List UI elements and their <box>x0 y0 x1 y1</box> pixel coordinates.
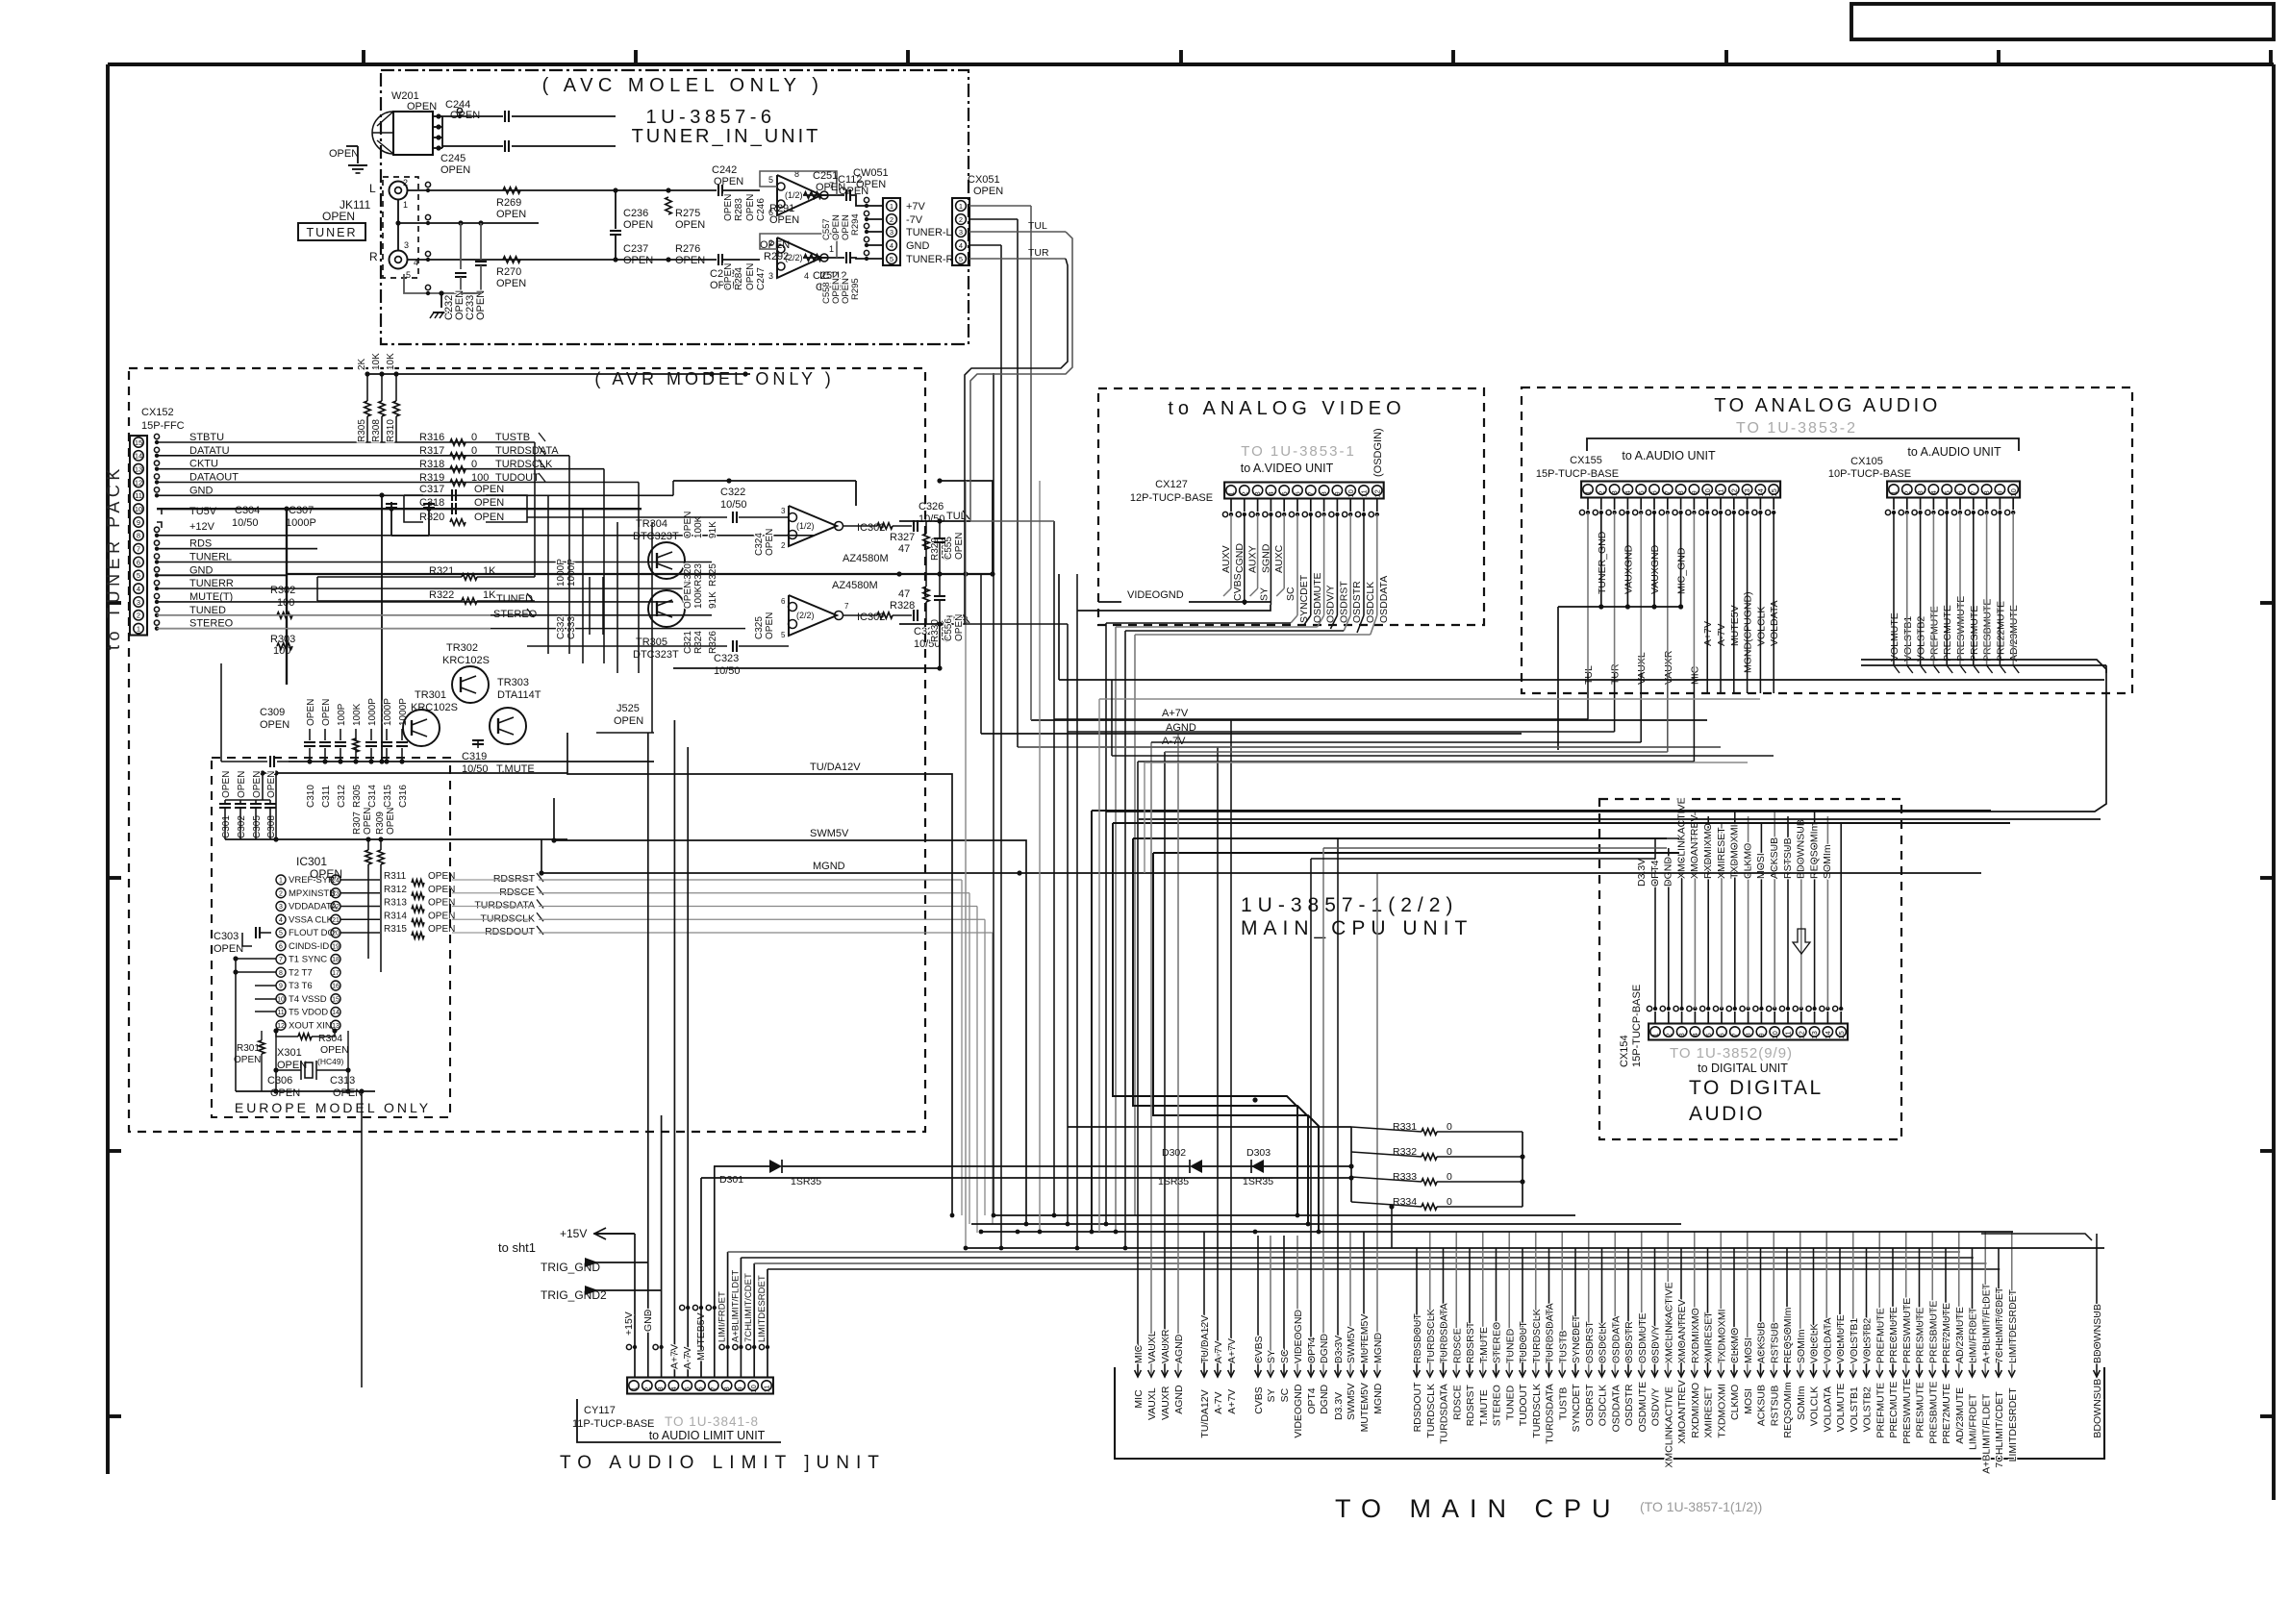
svg-text:J525: J525 <box>617 703 640 714</box>
svg-text:BDOWNSUB: BDOWNSUB <box>1796 819 1807 879</box>
svg-text:10: 10 <box>277 996 285 1003</box>
wires IC301 left <box>236 958 276 960</box>
svg-text:OSDRST: OSDRST <box>1584 1321 1596 1363</box>
capacitor C232 <box>460 223 462 269</box>
svg-text:OPEN: OPEN <box>745 263 756 290</box>
svg-text:MUTEM5V: MUTEM5V <box>1359 1314 1371 1363</box>
svg-text:XMIRESET: XMIRESET <box>1703 1312 1715 1363</box>
svg-text:VOLDATA: VOLDATA <box>1769 601 1780 646</box>
IC301 pin rows <box>276 875 286 885</box>
svg-text:CGND: CGND <box>1234 543 1246 573</box>
svg-text:PRE22MUTE: PRE22MUTE <box>1995 601 2006 662</box>
capacitor C245 <box>442 145 503 147</box>
svg-text:11: 11 <box>1360 490 1369 498</box>
svg-text:TU/DA12V: TU/DA12V <box>1199 1315 1211 1363</box>
svg-text:1: 1 <box>1651 1033 1660 1037</box>
svg-text:7: 7 <box>1969 490 1977 494</box>
svg-text:XMOANTREV: XMOANTREV <box>1689 814 1700 879</box>
svg-text:TURDSCLK: TURDSCLK <box>1425 1384 1437 1438</box>
svg-text:XMCLINKACTIVE: XMCLINKACTIVE <box>1663 1387 1674 1468</box>
svg-text:6: 6 <box>1718 1033 1726 1037</box>
OSD bus lines exiting video box <box>1106 622 1291 624</box>
svg-text:TUR: TUR <box>1610 663 1622 685</box>
svg-text:OSDDATA: OSDDATA <box>1610 1316 1622 1363</box>
svg-text:C332: C332 <box>556 616 566 639</box>
svg-text:(2/2): (2/2) <box>796 611 815 620</box>
svg-text:47: 47 <box>898 588 910 600</box>
svg-text:7CHLIMIT/CDET: 7CHLIMIT/CDET <box>743 1273 754 1342</box>
svg-text:C247: C247 <box>756 267 767 290</box>
svg-text:C316: C316 <box>398 785 409 808</box>
svg-text:SGND: SGND <box>1260 543 1271 573</box>
svg-text:2: 2 <box>1902 490 1911 494</box>
svg-text:PREFMUTE: PREFMUTE <box>1875 1308 1886 1363</box>
svg-text:VAUXL: VAUXL <box>1146 1387 1158 1420</box>
svg-text:GND: GND <box>189 485 214 496</box>
svg-text:C237: C237 <box>623 243 648 255</box>
fiducial ticks top <box>362 50 365 64</box>
svg-text:VOLSTB2: VOLSTB2 <box>1916 616 1927 662</box>
svg-text:R284: R284 <box>734 267 744 290</box>
svg-text:CVBS: CVBS <box>1232 573 1244 601</box>
svg-text:BDOWNSUB: BDOWNSUB <box>2092 1304 2103 1363</box>
svg-text:MIC: MIC <box>1133 1344 1145 1363</box>
svg-text:100K: 100K <box>693 586 704 609</box>
bottom signal columns group C <box>1257 1236 1259 1377</box>
svg-text:15P-TUCP-BASE: 15P-TUCP-BASE <box>1536 468 1619 480</box>
CX105 stubs <box>1893 498 1895 511</box>
border frame right <box>2272 64 2276 1500</box>
resistor R292 <box>804 255 821 261</box>
svg-text:XMOANTREV: XMOANTREV <box>1676 1380 1688 1444</box>
svg-text:R326: R326 <box>708 631 718 654</box>
svg-text:4: 4 <box>1929 490 1938 494</box>
svg-text:12P-TUCP-BASE: 12P-TUCP-BASE <box>1130 492 1213 504</box>
capacitor C236 <box>613 187 617 192</box>
wire jack link <box>397 199 399 223</box>
svg-text:VIDEOGND: VIDEOGND <box>1293 1384 1304 1437</box>
svg-text:OSDMUTE: OSDMUTE <box>1637 1382 1648 1433</box>
connector CX155 <box>1581 482 1780 498</box>
to ANALOG VIDEO dashed box <box>1098 388 1484 625</box>
svg-text:TO 1U-3852(9/9): TO 1U-3852(9/9) <box>1670 1045 1793 1062</box>
svg-text:SYNCDET: SYNCDET <box>1571 1314 1582 1363</box>
svg-text:9: 9 <box>1690 490 1699 494</box>
bottom signal column BDOWNSUB <box>2096 1234 2098 1377</box>
row 1225 wire <box>701 1177 1351 1179</box>
svg-text:ACKSUB: ACKSUB <box>1756 1322 1768 1363</box>
svg-text:SWM5V: SWM5V <box>1346 1326 1357 1363</box>
svg-text:6: 6 <box>781 597 786 606</box>
svg-text:MUTE(T): MUTE(T) <box>189 591 233 603</box>
digital D3.3V OPT4 DGND left runs <box>1311 858 1655 860</box>
svg-text:12: 12 <box>1372 489 1381 497</box>
svg-text:FLOUT DO: FLOUT DO <box>289 928 335 938</box>
svg-text:2: 2 <box>403 178 408 187</box>
svg-text:MOSI: MOSI <box>1743 1388 1754 1414</box>
svg-text:91K: 91K <box>708 591 718 609</box>
svg-text:OSDCLK: OSDCLK <box>1598 1322 1609 1363</box>
svg-text:9: 9 <box>279 984 283 990</box>
svg-text:R304: R304 <box>318 1033 342 1044</box>
svg-text:7: 7 <box>844 602 849 611</box>
svg-text:OPEN: OPEN <box>973 186 1003 197</box>
svg-text:RXDMIXMO: RXDMIXMO <box>1690 1383 1701 1438</box>
svg-text:PRESMUTE: PRESMUTE <box>1969 606 1980 662</box>
svg-text:D302: D302 <box>1162 1147 1186 1159</box>
svg-text:A-7V: A-7V <box>1213 1391 1224 1413</box>
svg-text:15P-TUCP-BASE: 15P-TUCP-BASE <box>1631 985 1643 1067</box>
svg-text:1: 1 <box>1227 491 1236 495</box>
svg-text:AUXV: AUXV <box>1220 545 1232 573</box>
svg-text:-7V: -7V <box>906 214 923 226</box>
svg-text:OSDRST: OSDRST <box>1584 1384 1596 1426</box>
resistor R270 <box>503 257 520 262</box>
svg-text:R322: R322 <box>429 589 454 601</box>
svg-text:C322: C322 <box>720 487 745 498</box>
svg-text:PRESMUTE: PRESMUTE <box>1915 1382 1926 1437</box>
AVC to bundle wires <box>969 205 1031 207</box>
AVR model only dashed box <box>129 368 925 1132</box>
svg-text:MIC_GND: MIC_GND <box>1676 547 1688 594</box>
svg-text:MAIN_CPU UNIT: MAIN_CPU UNIT <box>1241 917 1472 939</box>
svg-text:MUTE5V: MUTE5V <box>1729 605 1741 646</box>
EUROPE model only dashed box <box>212 758 450 1117</box>
svg-text:OPEN: OPEN <box>234 1055 261 1065</box>
europe bottom bus <box>236 1090 375 1092</box>
feedback wires opamp1 <box>760 171 837 195</box>
svg-text:MGND: MGND <box>813 861 845 872</box>
svg-text:4: 4 <box>279 917 283 924</box>
svg-text:OPEN: OPEN <box>363 808 373 835</box>
svg-text:TUNER: TUNER <box>306 226 357 239</box>
svg-text:1: 1 <box>890 202 893 211</box>
svg-text:X301: X301 <box>277 1047 302 1059</box>
junction dots bottom buses <box>992 1213 996 1218</box>
connector CX152 15P-FFC <box>130 436 147 635</box>
svg-text:R295: R295 <box>850 278 861 300</box>
svg-text:R301: R301 <box>237 1043 260 1054</box>
svg-text:R302: R302 <box>270 585 295 596</box>
svg-text:+7V: +7V <box>906 201 926 212</box>
svg-text:2K: 2K <box>357 358 367 370</box>
svg-text:R305: R305 <box>357 419 367 442</box>
svg-text:TUR: TUR <box>1028 247 1049 259</box>
svg-text:1: 1 <box>403 200 408 210</box>
svg-text:VAUXR: VAUXR <box>1160 1329 1171 1363</box>
svg-text:OPEN: OPEN <box>765 612 775 639</box>
long wires LIMI group to right <box>728 1251 1960 1253</box>
op-amp IC112 (1/2) <box>777 175 821 215</box>
svg-text:6: 6 <box>1294 491 1302 495</box>
svg-text:10: 10 <box>1346 489 1355 497</box>
svg-text:MGND: MGND <box>1372 1383 1384 1413</box>
svg-text:VOLDATA: VOLDATA <box>1822 1318 1833 1363</box>
svg-text:SY: SY <box>1259 587 1271 601</box>
svg-text:1U-3857-6: 1U-3857-6 <box>645 107 775 128</box>
svg-text:47: 47 <box>898 543 910 555</box>
capacitor C237 <box>613 257 617 262</box>
svg-text:1: 1 <box>279 878 283 885</box>
svg-text:LIMITDESRDET: LIMITDESRDET <box>757 1275 768 1342</box>
bottom signal columns group A <box>1137 762 1139 1377</box>
wire opamp1 out <box>803 194 828 196</box>
svg-text:OPEN: OPEN <box>954 533 965 560</box>
svg-text:OPEN: OPEN <box>496 278 526 289</box>
svg-text:C318: C318 <box>419 497 444 509</box>
svg-text:12: 12 <box>1729 488 1738 496</box>
svg-text:TURDSDATA: TURDSDATA <box>495 445 559 457</box>
svg-text:VAUXGND: VAUXGND <box>1649 544 1661 594</box>
svg-text:+15V: +15V <box>560 1227 587 1240</box>
capacitor C244 <box>442 115 503 117</box>
svg-text:3: 3 <box>656 1387 665 1390</box>
svg-text:5: 5 <box>1280 491 1289 495</box>
svg-text:VOLSTB1: VOLSTB1 <box>1849 1387 1860 1432</box>
svg-text:7CHLIMIT/CDET: 7CHLIMIT/CDET <box>1994 1391 2005 1468</box>
svg-text:STBTU: STBTU <box>189 432 224 443</box>
border frame left <box>106 64 110 1474</box>
svg-text:OSDSTR: OSDSTR <box>1351 581 1363 623</box>
svg-text:TO DIGITAL: TO DIGITAL <box>1689 1077 1824 1099</box>
svg-text:to A.AUDIO UNIT: to A.AUDIO UNIT <box>1907 445 2001 459</box>
svg-text:RDSCE: RDSCE <box>499 887 535 898</box>
svg-text:4: 4 <box>959 241 963 250</box>
wire A+7V bus <box>1031 719 1707 721</box>
jack dashed outline <box>383 177 418 278</box>
svg-text:22: 22 <box>332 904 340 911</box>
svg-text:20: 20 <box>332 931 340 937</box>
svg-text:6: 6 <box>696 1387 705 1390</box>
svg-text:RDSDOUT: RDSDOUT <box>1412 1382 1423 1433</box>
svg-text:TR302: TR302 <box>446 642 478 654</box>
svg-text:R275: R275 <box>675 208 700 219</box>
svg-text:R313: R313 <box>384 898 407 909</box>
svg-text:TURDSCLK: TURDSCLK <box>1425 1309 1437 1363</box>
svg-text:STEREO: STEREO <box>1492 1322 1503 1363</box>
svg-text:9: 9 <box>137 518 140 527</box>
svg-text:XOUT XIN: XOUT XIN <box>289 1020 332 1031</box>
svg-text:to A.VIDEO UNIT: to A.VIDEO UNIT <box>1241 462 1334 475</box>
svg-text:TUSTB: TUSTB <box>1557 1331 1569 1363</box>
svg-text:TO 1U-3853-2: TO 1U-3853-2 <box>1736 420 1857 437</box>
svg-text:7: 7 <box>709 1387 717 1390</box>
svg-text:TURDSCLK: TURDSCLK <box>495 459 553 470</box>
svg-text:TR303: TR303 <box>497 677 529 688</box>
svg-text:VIDEOGND: VIDEOGND <box>1127 589 1184 601</box>
svg-text:A-7V: A-7V <box>682 1347 693 1369</box>
svg-text:A+7V: A+7V <box>668 1344 680 1369</box>
svg-text:R319: R319 <box>419 472 444 484</box>
svg-text:TURDSDATA: TURDSDATA <box>1439 1384 1450 1444</box>
wire TU/DA12V <box>567 733 952 1215</box>
svg-text:TUSTB: TUSTB <box>1557 1387 1569 1420</box>
svg-text:OPEN: OPEN <box>260 719 289 731</box>
svg-text:C314: C314 <box>367 785 378 808</box>
svg-text:2: 2 <box>1240 491 1248 495</box>
svg-text:23: 23 <box>332 890 340 897</box>
connector CX127 <box>1224 483 1384 499</box>
svg-text:1000P: 1000P <box>367 698 378 726</box>
svg-text:TXDMOXMI: TXDMOXMI <box>1729 824 1741 879</box>
svg-text:to TUNER PACK: to TUNER PACK <box>104 464 123 650</box>
svg-text:1000P: 1000P <box>556 559 566 587</box>
svg-text:5: 5 <box>137 571 140 580</box>
svg-text:10/50: 10/50 <box>720 499 747 511</box>
svg-text:SC: SC <box>1285 587 1296 601</box>
svg-text:C301: C301 <box>221 815 232 838</box>
svg-text:R317: R317 <box>419 445 444 457</box>
svg-text:VOLCLK: VOLCLK <box>1809 1324 1821 1363</box>
svg-text:OPEN: OPEN <box>714 176 743 187</box>
wire jack R <box>407 259 616 261</box>
svg-text:14: 14 <box>332 1010 340 1016</box>
svg-text:11: 11 <box>135 491 142 500</box>
svg-text:TU/DA12V: TU/DA12V <box>1199 1389 1211 1437</box>
svg-text:LIMITDESRDET: LIMITDESRDET <box>2007 1387 2019 1462</box>
svg-text:R307: R307 <box>352 812 363 835</box>
svg-text:9: 9 <box>1996 490 2004 494</box>
svg-text:10/50: 10/50 <box>714 665 741 677</box>
capacitor C252 <box>845 252 847 263</box>
wire C323 row <box>527 645 727 647</box>
svg-text:OPEN: OPEN <box>474 484 504 495</box>
svg-text:REQSOMIm: REQSOMIm <box>1782 1382 1794 1438</box>
svg-text:100K: 100K <box>352 703 363 726</box>
svg-text:MIC: MIC <box>1133 1389 1145 1409</box>
svg-text:REQSOMIm: REQSOMIm <box>1808 822 1820 879</box>
svg-text:SWM5V: SWM5V <box>810 828 849 839</box>
svg-text:3: 3 <box>959 228 963 237</box>
connector CX051 strip <box>952 198 969 265</box>
wires CX152 rows <box>157 441 535 443</box>
svg-text:91K: 91K <box>708 521 718 538</box>
svg-text:R: R <box>369 250 378 263</box>
svg-text:CX105: CX105 <box>1850 456 1883 467</box>
svg-text:R270: R270 <box>496 266 521 278</box>
svg-text:PRESWMUTE: PRESWMUTE <box>1955 596 1967 662</box>
svg-text:1: 1 <box>137 624 140 633</box>
svg-text:SYNCDET: SYNCDET <box>1571 1384 1582 1433</box>
svg-text:1U-3857-1(2/2): 1U-3857-1(2/2) <box>1241 894 1458 916</box>
TO MAIN CPU bracket <box>1115 1367 2104 1459</box>
svg-text:PREFMUTE: PREFMUTE <box>1875 1383 1886 1438</box>
svg-text:3: 3 <box>1916 490 1925 494</box>
svg-text:OPEN: OPEN <box>769 214 799 226</box>
svg-text:OPEN: OPEN <box>623 255 653 266</box>
svg-text:OPEN: OPEN <box>428 871 455 882</box>
mid gnd bus <box>287 573 993 575</box>
wire AGND bus <box>981 733 1522 735</box>
svg-text:CX154: CX154 <box>1619 1035 1630 1067</box>
TO ANALOG AUDIO dashed box <box>1522 387 2132 693</box>
svg-text:PRE72MUTE: PRE72MUTE <box>1941 1384 1952 1444</box>
svg-text:OPEN: OPEN <box>723 263 734 290</box>
svg-text:CX152: CX152 <box>141 407 174 418</box>
svg-text:RXDMIXMO: RXDMIXMO <box>1690 1308 1701 1363</box>
svg-text:CX155: CX155 <box>1570 455 1602 466</box>
svg-text:CY117: CY117 <box>584 1405 616 1416</box>
svg-text:OPEN: OPEN <box>745 194 756 221</box>
svg-text:to ANALOG VIDEO: to ANALOG VIDEO <box>1168 398 1405 419</box>
svg-text:A-7V: A-7V <box>1716 624 1727 646</box>
svg-text:3: 3 <box>1610 490 1619 494</box>
svg-text:TUSTB: TUSTB <box>495 432 530 443</box>
wire opamp2 out <box>803 257 828 259</box>
capacitor C242 <box>717 185 719 196</box>
CX154 stubs and wires <box>1654 1012 1656 1024</box>
svg-text:C317: C317 <box>419 484 444 495</box>
svg-text:TUNER-L: TUNER-L <box>906 227 952 238</box>
svg-text:TO 1U-3853-1: TO 1U-3853-1 <box>1241 443 1356 460</box>
svg-text:11P-TUCP-BASE: 11P-TUCP-BASE <box>572 1418 654 1430</box>
svg-text:OPEN: OPEN <box>450 110 480 121</box>
svg-text:TUNER_IN_UNIT: TUNER_IN_UNIT <box>632 126 821 147</box>
svg-text:to DIGITAL UNIT: to DIGITAL UNIT <box>1698 1062 1788 1075</box>
svg-text:R309: R309 <box>375 812 386 835</box>
svg-text:OPEN: OPEN <box>237 771 247 798</box>
svg-text:RDSCE: RDSCE <box>1451 1328 1463 1363</box>
svg-text:C310: C310 <box>306 785 316 808</box>
svg-text:9: 9 <box>1333 491 1342 495</box>
resistor R327 47 <box>877 523 893 529</box>
border frame top <box>108 62 2274 66</box>
svg-text:to sht1: to sht1 <box>498 1240 536 1255</box>
svg-text:D3.3V: D3.3V <box>1333 1336 1345 1363</box>
svg-text:C555: C555 <box>944 537 954 560</box>
svg-text:RDSRST: RDSRST <box>493 873 536 885</box>
svg-text:15: 15 <box>332 996 340 1003</box>
op-amp IC302 (2/2) <box>789 595 837 636</box>
svg-text:0: 0 <box>1447 1121 1452 1133</box>
svg-text:5: 5 <box>1704 1033 1713 1037</box>
svg-text:100P: 100P <box>337 703 347 726</box>
wire mid gnd bus <box>668 189 717 191</box>
svg-text:R320: R320 <box>419 512 444 523</box>
svg-text:R310: R310 <box>386 419 396 442</box>
svg-text:7: 7 <box>137 544 140 553</box>
svg-text:5: 5 <box>406 270 411 280</box>
svg-text:4: 4 <box>890 241 893 250</box>
svg-text:TXDMOXMI: TXDMOXMI <box>1716 1309 1727 1363</box>
svg-text:PRE72MUTE: PRE72MUTE <box>1941 1303 1952 1363</box>
wire pin5 gnd <box>404 274 481 293</box>
svg-text:VOLMUTE: VOLMUTE <box>1835 1384 1847 1433</box>
diode D303 <box>1202 1165 1260 1167</box>
svg-text:CLKMO: CLKMO <box>1729 1385 1741 1420</box>
svg-text:TUNERR: TUNERR <box>189 578 234 589</box>
svg-text:DGND: DGND <box>1663 857 1674 887</box>
wire C322 row <box>527 516 727 518</box>
svg-text:VOLSTB1: VOLSTB1 <box>1902 616 1914 662</box>
heavy gnd vertical <box>284 507 289 512</box>
svg-text:100: 100 <box>277 597 294 609</box>
svg-text:C306: C306 <box>267 1075 292 1087</box>
svg-text:1000P: 1000P <box>566 559 577 587</box>
svg-text:VOLSTB2: VOLSTB2 <box>1862 1318 1874 1363</box>
svg-text:10: 10 <box>749 1385 758 1392</box>
audio bottom bus <box>1861 664 2106 666</box>
svg-text:4: 4 <box>669 1387 678 1390</box>
svg-text:8: 8 <box>1676 490 1685 494</box>
svg-text:C246: C246 <box>756 198 767 221</box>
svg-text:MGND: MGND <box>1372 1333 1384 1363</box>
svg-text:OPEN: OPEN <box>474 512 504 523</box>
CX127 stub wires <box>1230 499 1232 512</box>
svg-text:OPEN: OPEN <box>214 943 243 955</box>
svg-text:RDSDOUT: RDSDOUT <box>485 926 536 937</box>
svg-text:OPEN: OPEN <box>277 1060 307 1071</box>
